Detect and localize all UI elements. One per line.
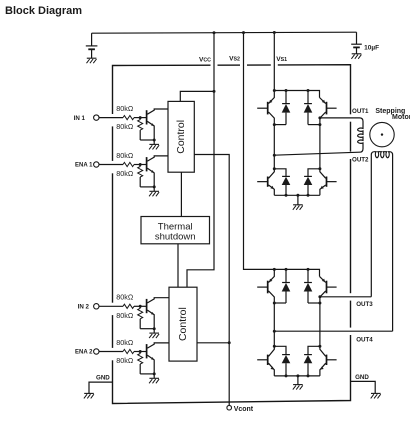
resistor 80k (series, IN 2) <box>123 304 146 308</box>
outline gaps <box>111 63 353 361</box>
svg-text:IN 1: IN 1 <box>74 115 86 122</box>
transistor bridge1 source left <box>257 91 274 125</box>
resistor 80k (series, ENA 2) <box>123 349 146 353</box>
svg-text:80kΩ: 80kΩ <box>116 338 134 347</box>
label 80kOhm upper (ENA 2) <box>116 338 134 347</box>
diode bridge2 flyback upper-right <box>304 269 320 303</box>
wire GND left <box>89 382 113 393</box>
svg-text:OUT3: OUT3 <box>356 301 373 308</box>
svg-text:Control: Control <box>175 120 187 154</box>
resistor 80k (pulldown, ENA 2) <box>138 352 155 374</box>
label 80kOhm lower (IN 1) <box>116 122 134 131</box>
diode bridge1 flyback upper-left <box>274 91 290 125</box>
transistor (ENA 1) <box>147 156 168 187</box>
svg-text:OUT1: OUT1 <box>352 108 369 115</box>
ground (IN 2) <box>149 329 159 338</box>
svg-text:80kΩ: 80kΩ <box>116 122 134 131</box>
diode bridge2 flyback lower-left <box>282 355 291 376</box>
terminal IN 1 <box>94 115 99 120</box>
svg-text:80kΩ: 80kΩ <box>116 311 134 320</box>
diode bridge1 flyback lower-right <box>304 176 313 195</box>
svg-text:shutdown: shutdown <box>155 231 196 242</box>
junction dot bridge1 outrow <box>273 154 276 157</box>
label OUT3 <box>356 301 373 308</box>
ground (C2) <box>351 54 361 59</box>
junction dot bridge2 outrow <box>273 330 276 333</box>
junction dot emitter (IN 1) <box>153 139 156 142</box>
resistor 80k (pulldown, ENA 1) <box>138 165 155 187</box>
transistor (IN 2) <box>147 298 169 329</box>
transistor (ENA 2) <box>147 343 169 374</box>
svg-text:GND: GND <box>355 374 369 381</box>
supply rail wire <box>92 32 357 33</box>
label GND right <box>355 374 369 381</box>
junction dot (IN 1) <box>139 116 142 119</box>
resistor 80k (pulldown, IN 2) <box>138 306 155 328</box>
resistor 80k (series, IN 1) <box>123 116 146 120</box>
label 80kOhm upper (IN 1) <box>116 104 134 113</box>
svg-text:ENA 1: ENA 1 <box>75 163 93 169</box>
wire bridge1 sink bars <box>274 169 320 177</box>
terminal ENA 2 <box>94 349 99 354</box>
svg-text:IN 2: IN 2 <box>78 304 90 311</box>
transistor bridge1 source right <box>320 98 337 125</box>
wire ENA 2 input <box>99 351 123 353</box>
label 10uF <box>364 45 379 52</box>
wire bridge2 sink bars <box>274 346 320 354</box>
label 80kOhm lower (ENA 1) <box>116 169 134 178</box>
capacitor C2 <box>351 32 362 53</box>
label 80kOhm upper (ENA 1) <box>116 151 134 160</box>
IC outline box <box>113 65 351 404</box>
junction dots bridge1 supply bar <box>273 89 310 92</box>
junction dots bridge1 sink rail <box>273 167 322 170</box>
diode bridge1 flyback upper-right <box>304 91 320 125</box>
wire control1 to thermal <box>180 172 182 216</box>
label Vcont <box>234 406 254 413</box>
junction dot emitter (IN 2) <box>153 327 156 330</box>
stepping motor rotor <box>370 122 394 146</box>
junction dot emitter (ENA 2) <box>153 372 156 375</box>
junction dots bridge2 ground bar <box>285 374 310 377</box>
junction dot bridge1 out tap <box>318 116 321 119</box>
junction dot (ENA 1) <box>139 163 142 166</box>
resistor 80k (pulldown, IN 1) <box>138 118 155 140</box>
diode bridge1 flyback lower-left <box>282 176 291 195</box>
wire bridge2 ground bar <box>274 375 320 377</box>
svg-text:80kΩ: 80kΩ <box>116 169 134 178</box>
junction dot Vcont-control2 <box>228 341 231 344</box>
label Stepping Motor <box>375 108 410 121</box>
ground (C1) <box>87 58 97 63</box>
terminal Vcont <box>227 405 232 410</box>
wire IN 1 input <box>99 117 123 119</box>
wire Vcont net <box>194 155 229 406</box>
wire VCC net <box>180 33 214 288</box>
wire IN 2 input <box>99 305 123 307</box>
svg-text:OUT2: OUT2 <box>352 157 369 164</box>
ground (GND right) <box>371 393 381 398</box>
ground (IN 1) <box>149 140 159 149</box>
junction dot (IN 2) <box>139 305 142 308</box>
junction dot bridge2 out tap <box>318 295 321 298</box>
label OUT4 <box>356 336 373 343</box>
wire bridge1 supply bar <box>274 91 319 98</box>
junction dots bridge1 mid <box>273 123 322 126</box>
junction dot VCC-rail <box>213 31 216 34</box>
label 80kOhm lower (IN 2) <box>116 311 134 320</box>
thermal shutdown block <box>141 217 210 244</box>
wire ENA 1 input <box>99 164 123 166</box>
junction dot VCC-control1 <box>213 90 216 93</box>
wire bridge1 left rail <box>273 125 275 169</box>
coil L2 phase2 <box>371 152 392 332</box>
terminal ENA 1 <box>94 162 99 167</box>
resistor 80k (series, ENA 1) <box>123 162 146 166</box>
svg-text:Control: Control <box>177 307 189 341</box>
label VCC <box>199 57 211 64</box>
wire bridge1 right rail <box>319 125 321 169</box>
junction dots bridge2 mid <box>273 302 322 305</box>
svg-text:VS2: VS2 <box>229 55 240 62</box>
svg-text:80kΩ: 80kΩ <box>116 356 134 365</box>
junction dots bridge2 sink rail <box>273 345 322 348</box>
wire Vs1 net <box>273 33 275 91</box>
label GND left <box>96 374 110 381</box>
junction dot Vs1-rail <box>273 31 276 34</box>
label ENA 1 <box>75 163 93 169</box>
label ENA 2 <box>75 350 93 356</box>
ground (ENA 2) <box>149 374 159 383</box>
label OUT1 <box>352 108 369 115</box>
ground (bridge1) <box>293 195 303 210</box>
svg-text:Motor: Motor <box>392 114 410 121</box>
svg-text:80kΩ: 80kΩ <box>116 104 134 113</box>
transistor bridge2 source right <box>320 276 337 303</box>
ground (GND left) <box>84 393 94 398</box>
svg-text:80kΩ: 80kΩ <box>116 151 134 160</box>
transistor bridge2 sink left <box>257 346 274 376</box>
transistor bridge1 sink right <box>320 169 337 196</box>
label Vs2 <box>229 55 240 62</box>
diode bridge2 flyback upper-left <box>274 269 290 303</box>
transistor (IN 1) <box>147 109 168 140</box>
junction dots bridge2 supply bar <box>273 268 310 271</box>
svg-text:OUT4: OUT4 <box>356 336 373 343</box>
label IN 1 <box>74 115 86 122</box>
ground (bridge2) <box>293 376 303 390</box>
svg-text:Block Diagram: Block Diagram <box>5 5 82 17</box>
transistor bridge2 source left <box>257 269 274 303</box>
junction dot emitter (ENA 1) <box>153 185 156 188</box>
title Block Diagram <box>5 5 82 17</box>
svg-text:Vcont: Vcont <box>234 406 254 413</box>
label 80kOhm lower (ENA 2) <box>116 356 134 365</box>
label IN 2 <box>78 304 90 311</box>
transistor bridge1 sink left <box>257 169 274 196</box>
svg-text:GND: GND <box>96 374 110 381</box>
control block U2 <box>169 287 197 361</box>
svg-text:VS1: VS1 <box>276 56 287 63</box>
junction dots bridge1 ground bar <box>285 194 310 197</box>
wire OUT4 row <box>274 330 392 332</box>
terminal IN 2 <box>94 304 99 309</box>
wire bridge2 left rail <box>273 303 275 346</box>
wire bridge2 right rail <box>319 303 321 346</box>
svg-text:VCC: VCC <box>199 57 211 64</box>
coil L1 phase1 <box>274 118 363 155</box>
label Vs1 <box>276 56 287 63</box>
svg-text:ENA 2: ENA 2 <box>75 350 93 356</box>
junction dot (ENA 2) <box>139 350 142 353</box>
wire GND right <box>351 381 376 393</box>
svg-text:80kΩ: 80kΩ <box>116 293 134 302</box>
label 80kOhm upper (IN 2) <box>116 293 134 302</box>
transistor bridge2 sink right <box>320 346 337 376</box>
ground (ENA 1) <box>149 187 159 196</box>
wire OUT3 <box>320 296 371 298</box>
capacitor C1 <box>86 33 98 58</box>
label OUT2 <box>352 157 369 164</box>
wire bridge2 supply bar <box>274 269 319 276</box>
svg-text:10µF: 10µF <box>364 45 379 52</box>
control block U1 <box>168 101 194 172</box>
junction dot Vs2-rail <box>242 31 245 34</box>
wire Vs2 net <box>244 33 275 270</box>
wire bridge1 ground bar <box>274 194 320 196</box>
diode bridge2 flyback lower-right <box>304 355 313 376</box>
wire thermal to control2 <box>177 244 179 287</box>
